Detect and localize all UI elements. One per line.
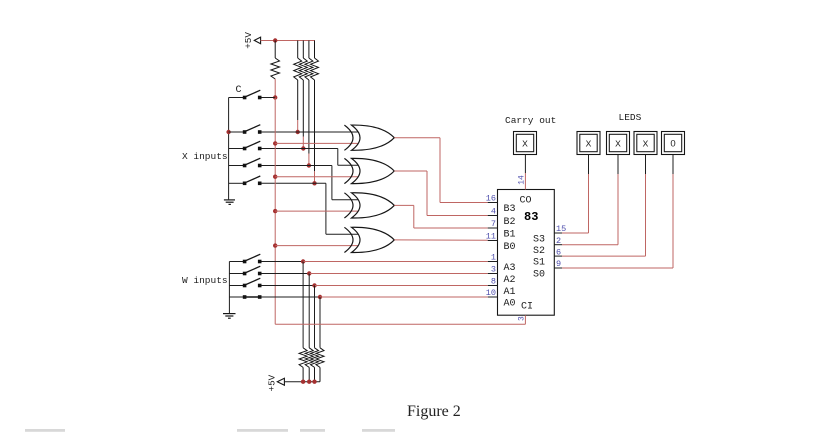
node junction X2 row / pull-up	[301, 146, 305, 150]
pin numbers right (15 2 6 9)	[556, 224, 566, 269]
node junction X bus / X3 row	[226, 130, 230, 134]
switch W3	[243, 254, 262, 263]
wire switch W0 to pull-up node	[261, 296, 320, 298]
resistor pull-up RX0	[311, 41, 319, 172]
wire C net vertical	[274, 98, 276, 325]
pin stub B1	[488, 227, 498, 229]
power +5V (bottom)	[266, 374, 284, 391]
wire C net to XOR U3 input B	[275, 210, 359, 212]
wire RC to C row	[274, 79, 276, 98]
op-amp XOR gate U2	[344, 158, 394, 183]
wire W bus to switch W1	[229, 285, 243, 287]
svg-text:11: 11	[486, 232, 496, 242]
resistor pull-up RX1	[305, 41, 313, 154]
pin number 3 (CI)	[517, 316, 526, 321]
wire XOR U2 output to B2	[394, 171, 487, 216]
pin stub S1	[554, 255, 562, 257]
node junction C net / U4 input B	[273, 243, 277, 247]
pin numbers left (16 4 7 11 1 3 8 10)	[486, 194, 496, 299]
node junction X3 row / pull-up	[296, 130, 300, 134]
node junction C row / C net	[273, 95, 277, 99]
svg-text:LEDS: LEDS	[619, 112, 642, 123]
svg-text:X: X	[643, 138, 649, 149]
LED S3 indicator	[577, 132, 600, 155]
svg-text:7: 7	[491, 219, 496, 229]
resistor pull-up RX3	[294, 41, 302, 121]
pin stub B3	[488, 202, 498, 204]
node junction bottom rail / RW1	[312, 380, 316, 384]
node junction C net / U3 input B	[273, 209, 277, 213]
resistor pull-up RW2	[305, 274, 313, 382]
svg-text:3: 3	[491, 265, 496, 275]
resistor pull-up RC (C line)	[271, 41, 280, 80]
switch X3	[243, 125, 262, 134]
label LEDS	[619, 112, 642, 123]
ground (W bus)	[223, 314, 236, 319]
node junction top rail / pull-up resistor	[273, 38, 277, 42]
label C (switch)	[236, 85, 242, 96]
svg-text:+5V: +5V	[243, 32, 254, 49]
wire S3 pin to LED	[562, 155, 589, 234]
pin stub A3	[488, 261, 498, 263]
resistor pull-up RX2	[299, 41, 307, 137]
ground (X bus)	[224, 200, 235, 205]
pin stub S2	[554, 244, 562, 246]
wire W2 row to A2 pin	[309, 273, 488, 275]
wire W input bus	[228, 262, 230, 314]
wire C net to XOR U1 input B	[275, 142, 359, 144]
pin stub B2	[488, 215, 498, 217]
node junction C net / U1 input B	[273, 141, 277, 145]
wire W bus to switch W3	[229, 261, 243, 263]
wire X bus to switch X1	[229, 165, 243, 167]
caption Figure 2	[407, 403, 461, 420]
wire W1 row to A1 pin	[315, 285, 488, 287]
wire C net to XOR U2 input B	[275, 176, 359, 178]
node junction X1 row / pull-up	[307, 163, 311, 167]
svg-text:A2: A2	[504, 275, 516, 286]
pin stub B0	[488, 240, 498, 242]
pin stub A0	[488, 296, 498, 298]
wire +5V top rail	[261, 40, 315, 42]
switch X0	[243, 176, 262, 185]
resistor pull-up RW3	[299, 262, 307, 382]
op-amp XOR gate U4	[344, 227, 394, 252]
wire XOR U4 output to B0	[394, 239, 487, 241]
wire pull-up RX2 to X2 row	[302, 137, 304, 149]
node junction bottom rail / RW2	[307, 380, 311, 384]
wire X bus to switch X2	[229, 148, 243, 150]
resistor pull-up RW0	[316, 297, 324, 382]
svg-text:X inputs: X inputs	[182, 151, 228, 162]
svg-text:16: 16	[486, 194, 496, 204]
wire W bus to switch W0	[229, 296, 243, 298]
switch W1	[243, 278, 262, 287]
node junction X0 row / pull-up	[312, 181, 316, 185]
wire switch W1 to pull-up node	[261, 285, 314, 287]
svg-text:2: 2	[556, 236, 561, 246]
switch X1	[243, 158, 262, 167]
wire S2 pin to LED	[562, 155, 618, 245]
power +5V (top)	[243, 32, 261, 49]
switch W0	[243, 295, 262, 299]
svg-text:8: 8	[491, 277, 496, 287]
svg-text:CI: CI	[521, 302, 533, 313]
LED S1 indicator	[634, 132, 657, 155]
svg-text:9: 9	[556, 259, 561, 269]
wire C net to XOR U4 input B	[275, 245, 359, 247]
pin stub A2	[488, 273, 498, 275]
wire switch X2 to XOR U2 input A	[261, 149, 359, 166]
wire C net to CI pin	[275, 320, 525, 324]
svg-text:S3: S3	[533, 234, 545, 245]
svg-text:B3: B3	[504, 204, 516, 215]
switch X2	[243, 141, 262, 150]
switch C	[243, 90, 262, 99]
label Carry out	[505, 115, 556, 126]
wire CO pin to carry-out LED	[524, 155, 526, 182]
wire switch C to C net	[261, 97, 275, 99]
svg-text:A1: A1	[504, 287, 516, 298]
cropped text artifacts (bottom edge)	[25, 429, 395, 432]
svg-text:B2: B2	[504, 217, 516, 228]
LED S0 indicator	[662, 132, 685, 155]
svg-text:6: 6	[556, 247, 561, 257]
svg-text:B1: B1	[504, 229, 516, 240]
node junction bottom rail / RW3	[301, 380, 305, 384]
svg-text:CO: CO	[520, 196, 532, 207]
switch W2	[243, 266, 262, 275]
node junction W2 row / pull-down resistor	[307, 271, 311, 275]
pin stub A1	[488, 285, 498, 287]
wire pull-up RX1 to X1 row	[308, 154, 310, 166]
svg-text:0: 0	[670, 138, 675, 149]
node junction W3 row / pull-down resistor	[301, 259, 305, 263]
wire switch X1 to XOR U3 input A	[261, 166, 359, 200]
svg-text:1: 1	[491, 253, 496, 263]
pin number 14 (CO)	[517, 175, 526, 185]
resistor pull-up RW1	[311, 286, 319, 382]
pin stub S3	[554, 232, 562, 234]
wire X bus to switch X0	[229, 182, 243, 184]
IC U5 7483 4-bit adder	[498, 190, 555, 316]
svg-text:S1: S1	[533, 257, 545, 268]
wire switch W2 to pull-up node	[261, 273, 309, 275]
svg-text:C: C	[236, 85, 242, 96]
wire X input bus	[228, 98, 230, 200]
wire pull-up RX0 to X0 row	[314, 171, 316, 183]
IC U5 labels	[504, 196, 546, 313]
label W inputs	[182, 275, 228, 286]
LED carry out indicator	[514, 132, 537, 155]
svg-text:X: X	[522, 138, 528, 149]
svg-text:B0: B0	[504, 242, 516, 253]
op-amp XOR gate U1	[344, 125, 394, 150]
svg-text:W inputs: W inputs	[182, 275, 228, 286]
svg-text:+5V: +5V	[266, 374, 277, 391]
wire XOR U3 output to B1	[394, 205, 487, 228]
wire switch X3 to XOR U1 input A	[261, 131, 359, 133]
svg-text:Carry out: Carry out	[505, 115, 556, 126]
wire W bus to switch W2	[229, 273, 243, 275]
pin stub CI	[524, 315, 526, 320]
svg-text:X: X	[586, 138, 592, 149]
svg-text:S0: S0	[533, 269, 545, 280]
LED S2 indicator	[607, 132, 630, 155]
node junction W0 row / pull-down resistor	[318, 295, 322, 299]
svg-text:A3: A3	[504, 263, 516, 274]
wire S1 pin to LED	[562, 155, 646, 257]
wire S0 pin to LED	[562, 155, 673, 269]
svg-text:A0: A0	[504, 298, 516, 309]
pin stub S0	[554, 267, 562, 269]
svg-text:4: 4	[491, 207, 496, 217]
pin stub CO	[524, 182, 526, 190]
svg-text:S2: S2	[533, 246, 545, 257]
wire switch X0 to XOR U4 input A	[261, 183, 359, 234]
wire XOR U1 output to B3	[394, 138, 487, 203]
wire switch W3 to pull-up node	[261, 261, 303, 263]
svg-text:83: 83	[524, 210, 538, 224]
svg-text:Figure 2: Figure 2	[407, 403, 461, 420]
node junction W1 row / pull-down resistor	[312, 283, 316, 287]
wire X bus to switch C	[229, 97, 243, 99]
wire +5V bottom rail	[284, 381, 320, 383]
wire W3 row to A3 pin	[303, 261, 488, 263]
wire W0 row to A0 pin	[320, 296, 488, 298]
node junction C net / U2 input B	[273, 175, 277, 179]
wire pull-up RX3 to X3 row	[297, 120, 299, 132]
op-amp XOR gate U3	[344, 193, 394, 218]
label X inputs	[182, 151, 228, 162]
wire X bus to switch X3	[229, 131, 243, 133]
svg-text:X: X	[615, 138, 621, 149]
